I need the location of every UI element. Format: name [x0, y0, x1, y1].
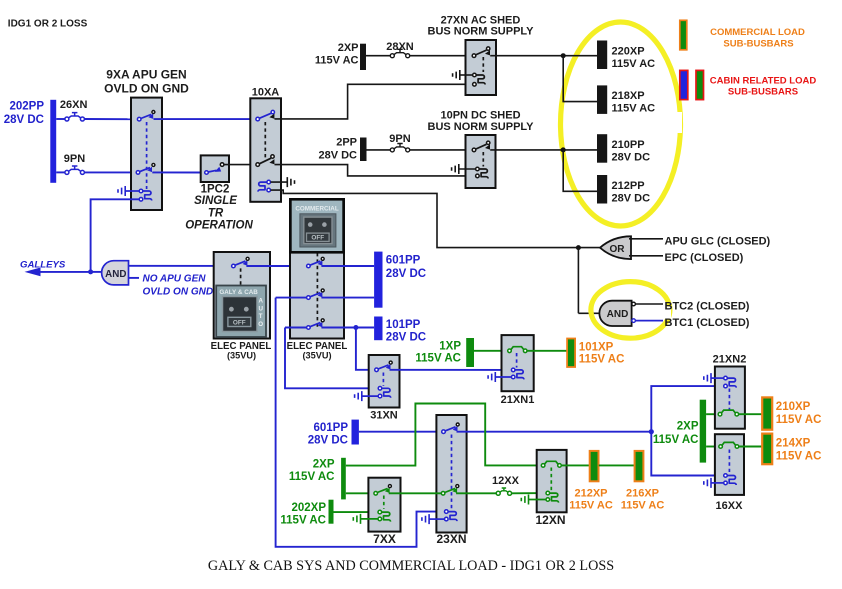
wire 23XN-1 output to distribution junction	[457, 431, 652, 433]
relay 23XN	[436, 415, 466, 546]
relay 10XA	[250, 87, 281, 202]
wire AND input BTC1	[636, 320, 664, 322]
contact 7XX	[374, 485, 391, 496]
wire 1XP to 21XN1	[474, 350, 508, 352]
relay 16XX	[715, 434, 744, 512]
wire 7XX output to 23XN	[389, 492, 442, 494]
legend cabin related load sub-busbars	[680, 70, 817, 99]
coil contacts 21XN1	[511, 368, 524, 379]
contact 23XN-2 (green)	[441, 485, 458, 496]
svg-text:O: O	[258, 321, 263, 328]
svg-text:NO APU GEN: NO APU GEN	[143, 273, 207, 284]
svg-text:28V DC: 28V DC	[386, 268, 426, 280]
relay 31XN	[369, 355, 400, 421]
ground 10XA	[271, 177, 295, 187]
wire 28XN to 27XN relay	[410, 55, 473, 57]
svg-text:9XA APU GEN: 9XA APU GEN	[106, 68, 186, 82]
contact 31XN	[375, 361, 393, 372]
svg-text:101PP: 101PP	[386, 319, 421, 331]
pin bubble BTC1	[632, 319, 636, 323]
svg-text:(35VU): (35VU)	[302, 351, 331, 361]
svg-text:SUB-BUSBARS: SUB-BUSBARS	[728, 87, 798, 98]
wire 21XN1 to 101XP	[527, 350, 567, 352]
wire 9PN to 9XA contact	[84, 171, 136, 173]
svg-text:COMMERCIAL: COMMERCIAL	[295, 206, 339, 213]
svg-text:115V AC: 115V AC	[612, 58, 656, 70]
svg-text:21XN1: 21XN1	[501, 394, 535, 406]
ground 12XN	[521, 495, 546, 505]
coil contacts 23XN	[445, 510, 458, 521]
svg-text:(35VU): (35VU)	[227, 351, 256, 361]
wire to 212PP	[563, 150, 597, 191]
svg-text:AND: AND	[105, 269, 126, 280]
switch 28XN	[386, 41, 414, 58]
wire 601PP to 23XN contact	[359, 431, 442, 433]
svg-text:115V AC: 115V AC	[415, 353, 461, 365]
svg-text:BTC2 (CLOSED): BTC2 (CLOSED)	[665, 301, 750, 313]
busbar 601PP 28V DC	[374, 252, 426, 308]
legend commercial load sub-busbar	[680, 20, 805, 50]
svg-text:220XP: 220XP	[612, 46, 645, 58]
wire 2XP to 28XN	[366, 55, 390, 57]
svg-text:202XP: 202XP	[291, 502, 326, 514]
svg-text:31XN: 31XN	[370, 409, 398, 421]
relay 1PC2	[185, 155, 253, 231]
svg-text:IDG1 OR 2 LOSS: IDG1 OR 2 LOSS	[8, 19, 88, 30]
svg-text:7XX: 7XX	[373, 532, 396, 546]
wire 202XP to 7XX coil	[334, 511, 379, 513]
svg-text:101XP: 101XP	[579, 342, 614, 354]
switch 9PN (DC)	[389, 133, 410, 152]
busbar 202XP 115V AC	[280, 500, 333, 527]
contact COMMERCIAL-1	[307, 257, 325, 268]
wire 2XP to 16XX bridge	[706, 446, 719, 448]
junction galleys	[88, 269, 93, 274]
wire 31XN output to 21XN1 coil	[390, 369, 512, 371]
wire junction down to 16XX coil	[651, 432, 723, 476]
contact 23XN-1 (601PP)	[442, 423, 460, 434]
wire 212XP to 216XP	[599, 464, 635, 466]
svg-text:115V AC: 115V AC	[569, 500, 613, 512]
bridge contact 12XN	[541, 461, 561, 467]
svg-text:601PP: 601PP	[386, 255, 421, 267]
relay 12XN	[535, 450, 566, 527]
svg-text:10PN DC SHED: 10PN DC SHED	[440, 110, 520, 122]
svg-text:115V AC: 115V AC	[653, 434, 699, 446]
pin bubble BTC2	[632, 302, 636, 306]
elec panel COMMERCIAL (35VU)	[287, 199, 348, 361]
or-gate U1	[600, 236, 631, 259]
svg-text:12XN: 12XN	[535, 513, 565, 527]
svg-text:EPC (CLOSED): EPC (CLOSED)	[665, 252, 744, 264]
svg-text:2XP: 2XP	[338, 42, 359, 54]
svg-text:OPERATION: OPERATION	[185, 219, 253, 231]
contact GALY panel	[232, 257, 250, 268]
busbar 214XP 115V AC	[762, 434, 821, 465]
svg-text:2XP: 2XP	[313, 459, 335, 471]
svg-text:214XP: 214XP	[776, 438, 811, 450]
busbar 210XP 115V AC	[762, 397, 821, 429]
coil contacts 21XN2	[724, 376, 737, 388]
svg-text:115V AC: 115V AC	[315, 55, 359, 67]
wire galleys arrow	[40, 271, 91, 273]
svg-text:23XN: 23XN	[436, 532, 466, 546]
wire 1PC2 to 10XA contact 2	[224, 164, 256, 166]
contact COMMERCIAL-3	[307, 319, 325, 330]
wire 12XX to 12XN coil	[512, 492, 546, 494]
wire 2PP to 9PN switch	[367, 149, 391, 151]
relay 9XA	[104, 68, 189, 211]
wire 10XA-1 to 27XN coil	[275, 84, 473, 119]
svg-text:OFF: OFF	[311, 235, 324, 242]
ground 16XX	[704, 478, 724, 488]
contact 1PC2	[205, 163, 224, 175]
coil contacts 10XA (mirrored)	[258, 180, 271, 192]
ground 23XN	[422, 514, 445, 524]
yellow highlight ellipse around AND gate	[591, 282, 670, 339]
busbar 212XP 115V AC	[569, 451, 613, 512]
and-gate U3 galleys	[91, 261, 129, 285]
relay 21XN2	[713, 353, 747, 428]
svg-text:SINGLE: SINGLE	[194, 195, 237, 207]
svg-text:212XP: 212XP	[574, 488, 607, 500]
svg-text:115V AC: 115V AC	[280, 515, 326, 527]
svg-text:BUS NORM SUPPLY: BUS NORM SUPPLY	[428, 121, 535, 133]
ground 31XN	[355, 391, 379, 401]
busbar 101XP 115V AC	[567, 339, 624, 368]
junction blue distribution	[649, 429, 654, 434]
svg-text:218XP: 218XP	[612, 90, 645, 102]
wire AND U3 input 1 to elec panel	[129, 265, 232, 267]
wire OR input EPC	[629, 255, 663, 257]
svg-text:21XN2: 21XN2	[713, 353, 747, 365]
svg-text:28V DC: 28V DC	[612, 152, 651, 164]
switch 9PN	[64, 153, 85, 174]
coil contacts 16XX	[724, 474, 737, 485]
contact 9XA-1	[137, 111, 155, 121]
contact 10XA-2	[256, 155, 274, 167]
ground 10PN	[452, 164, 476, 174]
wire 27XN output to 220XP	[490, 55, 597, 57]
svg-text:28V DC: 28V DC	[318, 150, 357, 162]
svg-text:OR: OR	[610, 244, 626, 255]
svg-text:GALY & CAB SYS AND COMMERCIAL: GALY & CAB SYS AND COMMERCIAL LOAD - IDG…	[208, 558, 614, 574]
wire 10XA-2 to 10PN coil	[275, 165, 476, 176]
svg-text:115V AC: 115V AC	[776, 451, 822, 463]
svg-text:GALLEYS: GALLEYS	[20, 260, 66, 271]
wire COMMERCIAL-2 down loop to 23XN coil	[276, 298, 445, 547]
svg-text:U: U	[258, 305, 263, 312]
busbar 2PP 28V DC	[318, 137, 366, 162]
svg-text:202PP: 202PP	[9, 101, 44, 113]
svg-text:115V AC: 115V AC	[579, 354, 625, 366]
junction DC	[561, 147, 566, 152]
wire to 218XP	[563, 56, 597, 102]
svg-text:SUB-BUSBARS: SUB-BUSBARS	[723, 39, 793, 50]
svg-text:28V DC: 28V DC	[386, 332, 426, 344]
junction OR output	[576, 245, 581, 250]
elec panel GALY & CAB (35VU)	[211, 252, 272, 361]
contact 10PN	[472, 141, 490, 152]
contact 9XA-2	[136, 163, 155, 174]
wire COMMERCIAL-2 input from 23XN coil loop	[276, 297, 307, 299]
wire 2XP upper loop to 12XN	[346, 404, 542, 466]
and-gate U2	[599, 301, 631, 326]
ground 27XN	[453, 70, 473, 80]
svg-text:2PP: 2PP	[336, 137, 357, 149]
bridge contact 21XN1	[508, 347, 527, 353]
svg-text:AND: AND	[607, 309, 629, 320]
svg-text:GALY & CAB: GALY & CAB	[219, 289, 258, 296]
svg-text:OVLD ON GND: OVLD ON GND	[143, 287, 214, 298]
svg-text:T: T	[259, 313, 263, 320]
svg-text:OFF: OFF	[233, 319, 246, 326]
wire OR input APU GLC	[629, 238, 663, 240]
busbar 2XP 115V AC (right vertical)	[653, 400, 706, 463]
svg-text:601PP: 601PP	[313, 422, 348, 434]
svg-text:1PC2: 1PC2	[201, 184, 230, 196]
svg-text:216XP: 216XP	[626, 488, 659, 500]
wire OR to AND	[577, 248, 579, 314]
busbar 202PP 28V DC	[4, 100, 56, 183]
wire 26XN to 9XA contact	[84, 118, 137, 120]
svg-text:115V AC: 115V AC	[621, 500, 665, 512]
svg-text:28V DC: 28V DC	[4, 114, 44, 126]
wire junction up to 21XN2 coil	[651, 386, 723, 432]
svg-text:BTC1 (CLOSED): BTC1 (CLOSED)	[665, 317, 750, 329]
wire 10XA coil to OR gate line	[271, 190, 600, 248]
switch 26XN	[60, 99, 88, 121]
busbar 1XP 115V AC	[415, 338, 474, 367]
ground 21XN1	[488, 372, 511, 382]
coil contacts 31XN	[378, 387, 391, 398]
busbar 218XP 115V AC	[597, 85, 655, 114]
junction AC	[561, 53, 566, 58]
coil contacts 10PN	[476, 167, 489, 178]
wire AND input BTC2	[636, 303, 664, 305]
svg-text:115V AC: 115V AC	[289, 471, 335, 483]
wire COMMERCIAL-3 to 101PP	[321, 327, 374, 329]
svg-text:26XN: 26XN	[60, 99, 88, 111]
ground 9XA	[118, 186, 139, 196]
svg-text:CABIN RELATED LOAD: CABIN RELATED LOAD	[710, 76, 817, 87]
svg-text:A: A	[258, 298, 263, 305]
switch 12XX	[492, 475, 520, 495]
ground 7XX	[353, 514, 378, 524]
svg-text:16XX: 16XX	[716, 500, 744, 512]
svg-text:210PP: 210PP	[612, 139, 645, 151]
bridge contact 21XN2	[718, 410, 738, 416]
wire AND U3 input 2 stub	[129, 277, 140, 279]
wire COMMERCIAL-2 to 601PP	[321, 297, 374, 299]
busbar 2XP 115V AC (left lower)	[289, 458, 346, 500]
busbar 210PP 28V DC	[597, 134, 650, 163]
wire 23XN-2 output to 12XX	[456, 492, 496, 494]
wire COMMERCIAL-3 down loop to 31XN coil	[285, 328, 378, 389]
wire 202PP to 26XN	[56, 118, 65, 120]
svg-text:10XA: 10XA	[252, 87, 280, 99]
svg-text:12XX: 12XX	[492, 475, 520, 487]
svg-text:2XP: 2XP	[677, 421, 699, 433]
svg-text:BUS NORM SUPPLY: BUS NORM SUPPLY	[428, 26, 535, 38]
svg-text:COMMERCIAL LOAD: COMMERCIAL LOAD	[710, 27, 805, 38]
wire 12XN to 212XP	[561, 464, 589, 466]
wire GALY panel to COMMERCIAL panel	[246, 265, 306, 267]
junction 101PP feed	[353, 325, 358, 330]
busbar 212PP 28V DC	[597, 175, 650, 205]
relay 27XN	[428, 15, 535, 95]
wire COMMERCIAL-1 to 601PP	[321, 265, 374, 267]
wire 202PP to 9PN	[56, 171, 65, 173]
bridge contact 16XX	[719, 442, 739, 448]
svg-text:212PP: 212PP	[612, 180, 645, 192]
coil contacts 27XN	[473, 73, 486, 86]
busbar 216XP 115V AC	[621, 451, 665, 512]
svg-text:9PN: 9PN	[64, 153, 85, 165]
wire 10PN output to 210PP	[490, 149, 597, 151]
contact 27XN	[472, 47, 490, 58]
relay 21XN1	[501, 335, 535, 406]
relay 10PN	[428, 110, 535, 188]
coil contacts 7XX	[378, 510, 391, 521]
svg-text:APU GLC (CLOSED): APU GLC (CLOSED)	[665, 236, 771, 248]
yellow highlight ellipse around shed busbars	[561, 22, 681, 226]
wire 9XA coil to galleys junction	[91, 199, 140, 272]
svg-text:28V DC: 28V DC	[612, 193, 651, 205]
busbar 2XP 115V AC (top)	[315, 42, 366, 70]
ground 21XN2	[704, 373, 724, 383]
busbar 601PP 28V DC (lower)	[308, 420, 359, 447]
wire 2XP to 7XX contact	[346, 492, 374, 494]
wire 21XN2 to 210XP	[739, 413, 763, 415]
wire 16XX to 214XP	[739, 446, 763, 448]
wire COMMERCIAL-3 input from 31XN coil loop	[285, 327, 307, 329]
svg-text:210XP: 210XP	[776, 401, 811, 413]
contact COMMERCIAL-2	[307, 289, 325, 300]
wire 9XA-1 output to 10XA	[154, 118, 256, 120]
coil contacts 12XN	[546, 491, 559, 502]
wire 2XP to 21XN2 bridge	[706, 413, 718, 415]
svg-text:1XP: 1XP	[439, 341, 461, 353]
svg-text:OVLD ON GND: OVLD ON GND	[104, 82, 189, 96]
wire junction to 31XN contact	[356, 328, 375, 370]
wire 9XA-2 output to 1PC2	[152, 171, 204, 173]
contact 10XA-1	[256, 110, 275, 120]
svg-text:115V AC: 115V AC	[612, 103, 656, 115]
coil contacts 9XA	[139, 189, 152, 201]
svg-text:28V DC: 28V DC	[308, 435, 348, 447]
relay 7XX	[368, 478, 400, 546]
svg-text:TR: TR	[208, 207, 224, 219]
busbar 220XP 115V AC	[597, 41, 655, 71]
svg-text:115V AC: 115V AC	[776, 414, 822, 426]
busbar 101PP 28V DC	[374, 317, 426, 344]
wire 9PN to 10PN relay	[410, 149, 473, 151]
